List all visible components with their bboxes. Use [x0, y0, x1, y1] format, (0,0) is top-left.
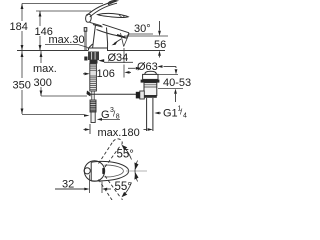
arrow max300 up [40, 52, 43, 58]
cartridge cap [90, 22, 102, 26]
handle closed hatch [119, 15, 125, 17]
lever rear chord [90, 162, 92, 180]
arrow max300 down [40, 91, 43, 97]
handle raised outline [87, 1, 117, 16]
stream arrow [114, 39, 121, 44]
arrow 146 down [39, 45, 42, 51]
dimension 146 line [39, 11, 41, 51]
svg-text:56: 56 [154, 39, 166, 51]
svg-text:4: 4 [183, 113, 187, 120]
pop-up horizontal rod [89, 93, 136, 95]
G3/8 fitting lower [91, 112, 95, 123]
pop-up joint [87, 91, 91, 97]
106 arrows [83, 73, 86, 75]
pull rod above deck [85, 31, 86, 50]
handle butt knob [86, 14, 92, 22]
arrow 350 hose pointer [84, 114, 90, 117]
pull rod knob [84, 28, 87, 32]
knob small circle [84, 168, 90, 174]
svg-text:max.: max. [33, 63, 57, 75]
arrow 350 down [21, 109, 24, 115]
svg-text:max.180: max.180 [98, 127, 140, 139]
G3/8 underline leader [101, 118, 120, 120]
handle closed position [98, 13, 129, 17]
lever outline [91, 161, 128, 181]
mounting nut below deck [88, 52, 99, 64]
centerline right [126, 170, 147, 172]
lever inner contour [105, 165, 124, 177]
svg-text:40-53: 40-53 [163, 77, 191, 89]
handle raised tip [108, 1, 117, 5]
arrow 184 up [21, 4, 24, 10]
aerator mouth dark [117, 35, 126, 38]
svg-text:55°: 55° [115, 181, 132, 193]
upper arc arrow [125, 148, 132, 160]
threaded stud [90, 64, 97, 92]
rotation double arc [135, 161, 138, 182]
seal washer dark [141, 80, 160, 83]
arrow 350 up [21, 52, 24, 58]
base flange [89, 44, 108, 49]
30deg underline and leader V [121, 33, 154, 47]
56 arrows [159, 21, 161, 31]
spout under edge [97, 30, 117, 36]
body left edge [93, 25, 96, 48]
body right edge [107, 28, 108, 44]
dimension 350 line [22, 51, 84, 115]
aerator extension line [123, 48, 125, 78]
drain flange [143, 74, 158, 79]
spout top edge [103, 24, 130, 33]
pop-up rod clamp [84, 57, 87, 61]
deck line right [107, 50, 165, 52]
40-53 dim arrows [175, 67, 177, 69]
extension line top of raised handle [22, 3, 103, 5]
G1 1/4 leader [159, 112, 161, 114]
lever slot dark [102, 168, 104, 174]
diam34 underline + arrow [104, 61, 133, 63]
boss circle [84, 161, 104, 181]
svg-text:55°: 55° [117, 149, 134, 161]
svg-text:106: 106 [97, 68, 115, 80]
svg-text:30°: 30° [134, 23, 151, 35]
deck line left [17, 50, 88, 52]
aerator face [127, 33, 130, 39]
upper dashed lever [99, 139, 123, 167]
arrow 146 up [39, 11, 42, 17]
drain plug dome [145, 71, 157, 74]
svg-text:300: 300 [34, 77, 52, 89]
drain body lower dark edge [144, 95, 157, 98]
dimension max300 line [41, 51, 87, 97]
extension line top of closed handle [36, 10, 91, 12]
32 dim [90, 175, 103, 194]
56 top line [124, 35, 168, 37]
lower dashed lever [99, 176, 123, 204]
drain body [144, 83, 157, 96]
G3/8 fitting hex [90, 100, 96, 112]
tailpipe [147, 98, 153, 131]
diam63 arrows [128, 67, 136, 69]
arrow 184 down [21, 45, 24, 51]
hose neck [92, 91, 94, 100]
svg-text:184: 184 [10, 21, 28, 33]
max180 dim [89, 124, 91, 134]
lower arc arrow [125, 183, 132, 195]
side port cap dark [136, 92, 140, 99]
svg-text:G1: G1 [163, 108, 178, 120]
flange top extension line [158, 74, 178, 76]
aerator bottom [116, 35, 127, 38]
dimension 184 line [21, 4, 23, 51]
side port [140, 91, 145, 99]
max.30 underline leader [45, 45, 88, 48]
svg-text:350: 350 [13, 80, 31, 92]
